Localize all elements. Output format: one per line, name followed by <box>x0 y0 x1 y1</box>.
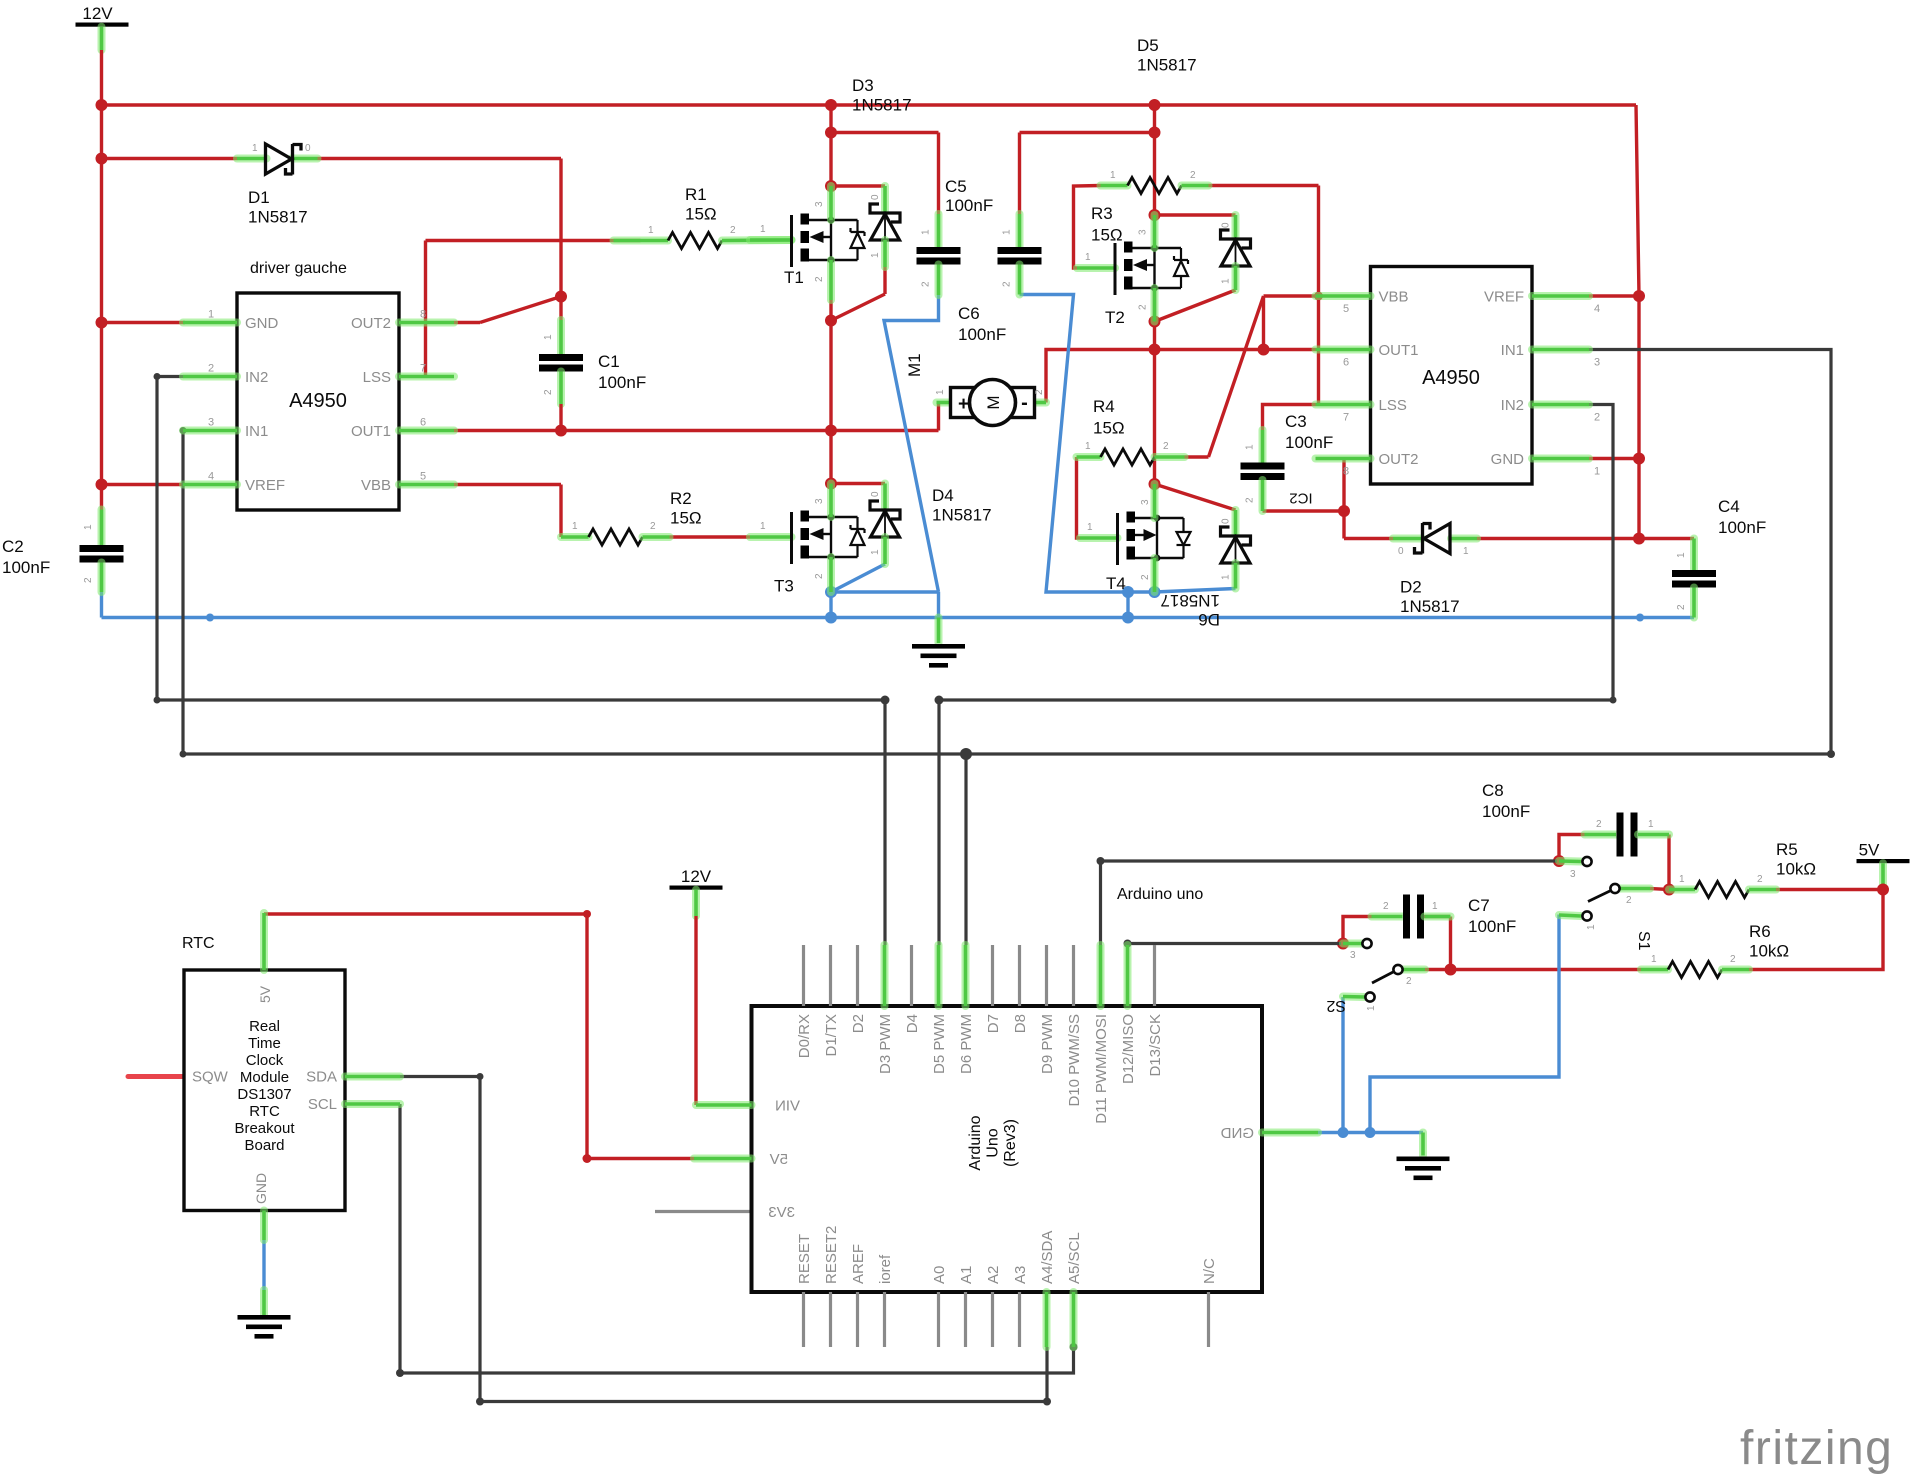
svg-text:T3: T3 <box>774 577 794 596</box>
wire D5-PWM to right IN2 (line1b y=700) <box>939 405 1613 701</box>
driver IC right A4950 (IC2) <box>1371 267 1533 485</box>
wire OUT2/D2 row to D2 anode <box>1344 537 1393 540</box>
junction T3 drop <box>825 612 837 624</box>
bendpoint line1b <box>1610 697 1617 704</box>
junction D11/C8/S1 <box>1553 855 1565 867</box>
svg-text:D1: D1 <box>248 188 270 207</box>
Arduino pin D13/SCK <box>1153 945 1156 1006</box>
svg-text:0: 0 <box>870 491 881 497</box>
junction 12V/main rail <box>96 99 108 111</box>
svg-text:1: 1 <box>83 524 94 530</box>
svg-text:1: 1 <box>1366 1005 1377 1011</box>
wire T3/ground-stub link (y=592) <box>831 590 939 593</box>
capacitor C4 100nF <box>1690 539 1698 571</box>
svg-text:M1: M1 <box>905 353 924 377</box>
svg-text:1: 1 <box>1679 874 1685 885</box>
right A4950 pin 2 IN2 <box>1532 401 1589 409</box>
svg-text:+: + <box>958 394 969 415</box>
junction T4/R4 <box>1149 478 1161 490</box>
svg-text:D8: D8 <box>1012 1014 1029 1033</box>
svg-text:7: 7 <box>1343 412 1349 424</box>
junction C3 bottom row <box>1338 505 1350 517</box>
wire D3-PWM drop <box>883 700 886 945</box>
svg-text:10kΩ: 10kΩ <box>1749 942 1789 961</box>
right A4950 pin 7 LSS <box>1316 401 1371 409</box>
left A4950 pin 8 OUT2 <box>399 319 454 327</box>
wire Arduino GND to ground symbol <box>1318 1131 1423 1134</box>
svg-text:12V: 12V <box>681 867 712 886</box>
wire R6 to S2/C7 node <box>1451 968 1642 971</box>
ground (switch net) <box>1419 1133 1427 1156</box>
junction VREF-pin/12V column <box>96 479 108 491</box>
svg-text:1: 1 <box>1463 546 1469 557</box>
svg-text:SDA: SDA <box>306 1069 337 1086</box>
svg-text:OUT2: OUT2 <box>1379 451 1419 468</box>
svg-text:D2: D2 <box>1400 578 1422 597</box>
svg-text:GND: GND <box>1221 1125 1255 1142</box>
svg-text:1: 1 <box>1651 954 1657 965</box>
svg-text:RESET: RESET <box>796 1234 813 1284</box>
wire C1 column to LSS/R1 row (y=240.5) <box>426 239 641 242</box>
svg-text:2: 2 <box>1034 389 1045 395</box>
svg-text:IN2: IN2 <box>1501 397 1524 414</box>
transistor T2 (N-MOSFET) <box>1077 264 1115 272</box>
switch S1 (SPDT) <box>1559 857 1581 866</box>
wire RTC SCL to A5/SCL <box>400 1104 1074 1373</box>
Arduino pin 5V <box>694 1155 752 1163</box>
svg-text:RTC: RTC <box>249 1103 280 1120</box>
Arduino pin D5 PWM <box>935 945 943 1006</box>
wire D6-PWM drop <box>964 754 967 945</box>
svg-text:GND: GND <box>245 315 279 332</box>
junction C6 branch <box>1149 127 1161 139</box>
svg-text:D4: D4 <box>904 1014 921 1033</box>
svg-text:100nF: 100nF <box>598 373 646 392</box>
resistor R2 15Ω <box>561 533 589 541</box>
Arduino pin A1 <box>964 1292 967 1347</box>
svg-text:-: - <box>1021 392 1028 414</box>
wire left OUT1 row (y=430.5) <box>454 429 939 432</box>
svg-text:2: 2 <box>1140 574 1151 580</box>
ground (RTC) <box>238 1315 291 1320</box>
svg-text:3: 3 <box>1138 229 1149 235</box>
svg-text:1: 1 <box>648 225 654 236</box>
bendpoint line2 <box>180 751 187 758</box>
svg-text:A5/SCL: A5/SCL <box>1066 1232 1083 1284</box>
right A4950 pin 3 IN1 <box>1532 346 1589 354</box>
bendpoint D12 <box>1124 940 1132 948</box>
junction Arduino 5V corner <box>583 1154 592 1163</box>
svg-text:DS1307: DS1307 <box>237 1086 291 1103</box>
svg-text:driver gauche: driver gauche <box>250 260 347 277</box>
svg-text:Arduino: Arduino <box>967 1115 984 1170</box>
svg-text:D9 PWM: D9 PWM <box>1039 1014 1056 1074</box>
svg-text:VBB: VBB <box>361 477 391 494</box>
svg-text:2: 2 <box>1138 304 1149 310</box>
svg-text:15Ω: 15Ω <box>1093 419 1125 438</box>
svg-text:C2: C2 <box>2 537 24 556</box>
svg-text:0: 0 <box>1221 222 1232 228</box>
wire VBB drop to OUT1 row <box>1262 296 1265 350</box>
svg-text:S2: S2 <box>1326 997 1346 1014</box>
svg-text:1: 1 <box>1586 924 1597 930</box>
right A4950 pin 6 OUT1 <box>1316 346 1371 354</box>
motor M1 (DC motor) <box>937 399 951 407</box>
svg-text:1N5817: 1N5817 <box>852 96 912 115</box>
wire 5V down to R6 <box>1749 890 1883 970</box>
svg-text:2: 2 <box>1676 604 1687 610</box>
svg-text:R5: R5 <box>1776 840 1798 859</box>
svg-text:2: 2 <box>814 276 825 282</box>
svg-text:D6 PWM: D6 PWM <box>958 1014 975 1074</box>
svg-text:R1: R1 <box>685 185 707 204</box>
svg-text:1N5817: 1N5817 <box>1137 56 1197 75</box>
right A4950 pin 1 GND <box>1532 455 1589 463</box>
bendpoint IN2 <box>154 373 161 380</box>
svg-text:0: 0 <box>1398 546 1404 557</box>
wire D2 cathode to C4 <box>1477 537 1694 540</box>
svg-text:LSS: LSS <box>1379 397 1407 414</box>
svg-text:IC2: IC2 <box>1289 490 1312 507</box>
svg-text:SCL: SCL <box>308 1096 337 1113</box>
wire C7 left to D12 node <box>1343 917 1372 944</box>
svg-text:1: 1 <box>935 389 946 395</box>
svg-text:2: 2 <box>208 363 214 375</box>
svg-text:fritzing: fritzing <box>1740 1422 1893 1475</box>
op-amp/driver IC left A4950 (driver gauche) <box>237 293 399 510</box>
junction VREF right <box>1633 290 1645 302</box>
svg-text:3V3: 3V3 <box>768 1204 795 1221</box>
junction T2 rail <box>1149 99 1161 111</box>
right A4950 pin 8 OUT2 <box>1316 455 1371 463</box>
svg-text:3: 3 <box>208 417 214 429</box>
diode D5 1N5817 (zener-style, by T2) <box>1232 215 1240 238</box>
left A4950 pin 5 VBB <box>399 481 454 489</box>
wire T4 source to D6 bottom <box>1155 589 1236 593</box>
svg-text:Arduino uno: Arduino uno <box>1117 886 1203 903</box>
wire left VBB to R2 <box>454 483 561 486</box>
svg-text:VREF: VREF <box>1484 289 1524 306</box>
junction D5 branch <box>1149 209 1161 221</box>
svg-text:Uno: Uno <box>985 1128 1002 1157</box>
junction S2 gnd <box>1338 1127 1349 1138</box>
svg-text:D3: D3 <box>852 76 874 95</box>
svg-text:1: 1 <box>870 549 881 555</box>
svg-text:AREF: AREF <box>850 1244 867 1284</box>
svg-text:R4: R4 <box>1093 397 1115 416</box>
diode D2 1N5817 (horizontal, pointing left) <box>1393 535 1422 543</box>
wire D5-PWM drop <box>937 700 940 945</box>
wire C5 bottom jog and diagonal to ground node <box>884 295 939 592</box>
svg-text:4: 4 <box>208 471 214 483</box>
wire node up to C7 right <box>1449 917 1452 970</box>
svg-text:1: 1 <box>1110 170 1116 181</box>
wire branch to C6 <box>1020 131 1155 134</box>
svg-text:T2: T2 <box>1105 308 1125 327</box>
svg-text:2: 2 <box>1757 874 1763 885</box>
svg-text:Clock: Clock <box>246 1052 284 1069</box>
Arduino pin A0 <box>937 1292 940 1347</box>
wire R3 pin1 to T2 gate <box>1074 186 1101 269</box>
wire right VREF to 12V column <box>1589 294 1639 297</box>
Arduino pin A2 <box>991 1292 994 1347</box>
svg-text:GND: GND <box>1491 451 1525 468</box>
wire D11 to S1/C8 node (y=861) <box>1101 861 1558 945</box>
Arduino pin D1/TX <box>829 945 832 1006</box>
svg-text:5V: 5V <box>770 1151 788 1168</box>
RTC pin 5V <box>260 913 268 970</box>
junction C1 bottom / OUT1 <box>555 425 567 437</box>
svg-text:100nF: 100nF <box>1468 917 1516 936</box>
svg-text:100nF: 100nF <box>958 325 1006 344</box>
wire S2 pin2 to node <box>1425 968 1451 971</box>
junction T2 column / OUT1R <box>1149 344 1161 356</box>
capacitor C1 100nF <box>557 320 565 354</box>
Arduino pin D9 PWM <box>1045 945 1048 1006</box>
capacitor C2 100nF <box>98 510 106 546</box>
bendpoint <box>583 910 591 918</box>
svg-text:2: 2 <box>814 573 825 579</box>
svg-text:VREF: VREF <box>245 477 285 494</box>
junction D5PWM <box>935 696 944 705</box>
junction D3PWM <box>881 696 890 705</box>
svg-text:2: 2 <box>1406 976 1412 987</box>
junction T1 source / D3 <box>825 315 837 327</box>
resistor R3 15Ω <box>1101 182 1128 190</box>
left A4950 pin 2 IN2 <box>183 373 237 381</box>
wire left IN2 to D3-PWM (line1a y=700) <box>157 377 885 701</box>
wire RTC SDA to A4/SDA <box>400 1077 1047 1402</box>
Arduino pin RESET2 <box>829 1292 832 1347</box>
svg-text:1: 1 <box>1221 574 1232 580</box>
svg-text:D2: D2 <box>850 1014 867 1033</box>
Arduino pin D8 <box>1018 945 1021 1006</box>
bendpoint C4 <box>1636 614 1644 622</box>
left A4950 pin 1 GND <box>183 319 237 327</box>
wire T1 drain column from rail <box>829 105 832 187</box>
left A4950 pin 6 OUT1 <box>399 427 454 435</box>
junction C1 top <box>555 291 567 303</box>
svg-text:A4950: A4950 <box>289 390 347 412</box>
svg-text:100nF: 100nF <box>1482 802 1530 821</box>
resistor R1 15Ω <box>614 237 669 245</box>
svg-text:2: 2 <box>1002 281 1013 287</box>
wire branch to C5 <box>831 131 939 134</box>
diode D1 1N5817 (horizontal) <box>237 155 267 163</box>
wire T2 drain column from rail <box>1153 105 1156 215</box>
svg-text:IN1: IN1 <box>1501 342 1524 359</box>
svg-text:1: 1 <box>760 224 766 235</box>
svg-text:1: 1 <box>208 309 214 321</box>
wire C2 bottom to bus <box>100 592 103 618</box>
wire S1 pin2 to R5 <box>1650 889 1669 890</box>
svg-text:1: 1 <box>1245 444 1256 450</box>
wire diagonal to D6 top <box>1155 484 1236 510</box>
svg-text:3: 3 <box>1594 357 1600 369</box>
svg-text:6: 6 <box>420 417 426 429</box>
svg-text:Real: Real <box>249 1018 280 1035</box>
wire R4 pin1 to T4 gate <box>1077 457 1081 538</box>
svg-text:D13/SCK: D13/SCK <box>1147 1014 1164 1077</box>
svg-text:2: 2 <box>83 577 94 583</box>
wire 12V main rail (y=105) <box>102 103 1637 106</box>
svg-text:8: 8 <box>1343 466 1349 478</box>
left A4950 pin 4 VREF <box>183 481 237 489</box>
svg-text:D5: D5 <box>1137 36 1159 55</box>
svg-text:1N5817: 1N5817 <box>1160 591 1220 610</box>
RTC pin SDA <box>345 1073 400 1081</box>
Arduino pin VIN <box>696 1101 752 1109</box>
svg-text:D3 PWM: D3 PWM <box>877 1014 894 1074</box>
svg-text:A2: A2 <box>985 1266 1002 1284</box>
Arduino pin N/C <box>1207 1292 1210 1347</box>
svg-text:D11 PWM/MOSI: D11 PWM/MOSI <box>1093 1014 1110 1124</box>
svg-text:C7: C7 <box>1468 896 1490 915</box>
wire GND bus (blue, y=617.5) <box>102 616 1695 619</box>
Arduino pin D0/RX <box>802 945 805 1006</box>
wire left OUT2 to C1 top <box>454 321 480 324</box>
wire T3 source node to bus <box>829 592 832 618</box>
wire D12 to S2/C7 node (y=943.5) <box>1128 944 1342 946</box>
RTC DS1307 breakout module <box>184 970 345 1211</box>
wire 12V to D1 (y=158.5) <box>102 157 238 160</box>
Arduino Uno (Rev3) main board IC <box>752 1006 1263 1292</box>
wire RTC 5V to Arduino 5V <box>264 914 694 1159</box>
svg-text:A1: A1 <box>958 1266 975 1284</box>
svg-text:A4/SDA: A4/SDA <box>1039 1231 1056 1284</box>
wire ground node drop <box>937 592 940 618</box>
wire motor + riser <box>937 403 940 431</box>
left A4950 pin 7 LSS <box>399 373 454 381</box>
wire D3 bottom diagonal to T1 source <box>831 294 885 321</box>
svg-text:A0: A0 <box>931 1266 948 1284</box>
junction D3 branch <box>825 180 837 192</box>
junction C7/S2/R6 node <box>1445 964 1457 976</box>
svg-text:2: 2 <box>730 225 736 236</box>
wire right LSS net to C3 <box>1263 405 1316 431</box>
wire D1 cathode to C1 column <box>318 157 562 160</box>
bendpoint right <box>1827 750 1835 758</box>
svg-text:7: 7 <box>420 363 426 375</box>
svg-text:D4: D4 <box>932 486 954 505</box>
svg-text:15Ω: 15Ω <box>1091 226 1123 245</box>
svg-text:2: 2 <box>1245 497 1256 503</box>
svg-text:D1/TX: D1/TX <box>823 1014 840 1057</box>
wire LSS(left) riser <box>424 241 427 376</box>
bendpoint line1a <box>154 697 161 704</box>
svg-text:2: 2 <box>1596 819 1602 830</box>
junction D1 feed <box>96 153 108 165</box>
svg-text:Board: Board <box>244 1137 284 1154</box>
junction T4 drop <box>1122 612 1134 624</box>
svg-text:1: 1 <box>1002 229 1013 235</box>
wire T4 node to bus <box>1126 592 1129 618</box>
svg-text:2: 2 <box>1163 441 1169 452</box>
svg-text:2: 2 <box>1626 895 1632 906</box>
wire S1 pin1 to Arduino GND bus <box>1370 915 1559 1133</box>
wire left A4950 VREF pin to 12V column <box>102 483 186 486</box>
wire D4 bottom diagonal to T3 source <box>831 564 885 592</box>
Arduino pin RESET <box>802 1292 805 1347</box>
svg-text:R6: R6 <box>1749 922 1771 941</box>
wire right VBB extension to left <box>1264 294 1316 297</box>
svg-text:Time: Time <box>248 1035 281 1052</box>
svg-text:1: 1 <box>252 143 258 154</box>
svg-text:15Ω: 15Ω <box>670 509 702 528</box>
svg-text:3: 3 <box>1350 950 1356 961</box>
svg-text:8: 8 <box>420 309 426 321</box>
Arduino pin D4 <box>910 945 913 1006</box>
svg-text:2: 2 <box>921 281 932 287</box>
bendpoint IN1 <box>180 427 187 434</box>
bendpoint SDA3 <box>1043 1398 1051 1406</box>
svg-text:1: 1 <box>1594 466 1600 478</box>
svg-text:RTC: RTC <box>182 935 215 952</box>
junction S1 gnd <box>1365 1127 1376 1138</box>
svg-text:LSS: LSS <box>363 369 391 386</box>
junction C5 branch <box>825 127 837 139</box>
junction D4 branch <box>825 478 837 490</box>
svg-text:VIN: VIN <box>775 1098 800 1115</box>
RTC pin SCL <box>345 1100 400 1108</box>
bendpoint <box>206 614 214 622</box>
svg-text:2: 2 <box>1383 901 1389 912</box>
svg-text:T1: T1 <box>784 268 804 287</box>
Arduino pin AREF <box>856 1292 859 1347</box>
svg-text:3: 3 <box>814 498 825 504</box>
svg-text:0: 0 <box>870 194 881 200</box>
svg-text:M: M <box>984 395 1003 409</box>
svg-text:D6: D6 <box>1198 610 1220 629</box>
junction R5 node <box>1663 884 1675 896</box>
diode D4 1N5817 (zener-style, by T3) <box>881 484 889 510</box>
bendpoint D11 <box>1097 857 1105 865</box>
svg-text:D0/RX: D0/RX <box>796 1014 813 1058</box>
wire 12V rail right drop to VREF/GND/C4 column <box>1636 105 1639 539</box>
svg-text:100nF: 100nF <box>945 196 993 215</box>
svg-text:1N5817: 1N5817 <box>248 208 308 227</box>
svg-text:1: 1 <box>870 252 881 258</box>
junction T4 drop node <box>1122 586 1134 598</box>
wire C6 bottom jog and diagonal down <box>1020 295 1155 593</box>
wire T2 source to T4 column <box>1153 288 1156 484</box>
wire motor - riser and right OUT1 row (y=349.5) <box>1046 350 1316 403</box>
svg-text:D7: D7 <box>985 1014 1002 1033</box>
svg-text:S1: S1 <box>1635 931 1652 951</box>
svg-text:A4950: A4950 <box>1422 367 1480 389</box>
diode D3 1N5817 (zener-style, by T1) <box>881 186 889 212</box>
svg-text:VBB: VBB <box>1379 289 1409 306</box>
junction VBB stub <box>1314 292 1323 301</box>
svg-text:1: 1 <box>572 521 578 532</box>
wire C8 right down to R5 node <box>1667 835 1670 890</box>
Arduino pin D11 PWM/MOSI <box>1097 945 1105 1006</box>
junction T4 source <box>1149 586 1161 598</box>
RTC pin GND <box>260 1211 268 1241</box>
Arduino pin D12/MISO <box>1124 945 1132 1006</box>
junction D6PWM <box>960 748 972 760</box>
transistor T1 (N-MOSFET) <box>750 236 792 244</box>
wire RTC SQW stub (red, unrouted) <box>128 1074 184 1079</box>
wire S2 pin1 down <box>1341 997 1344 1133</box>
svg-text:D5 PWM: D5 PWM <box>931 1014 948 1074</box>
wire D5 bottom diagonal to T2 source <box>1155 290 1236 322</box>
wire RTC GND blue segment <box>262 1240 265 1290</box>
svg-text:IN2: IN2 <box>245 369 268 386</box>
wire VBB diagonal to R4 pin2 <box>1209 296 1264 457</box>
capacitor C5 100nF <box>935 214 943 247</box>
resistor R5 10kΩ <box>1669 886 1695 894</box>
